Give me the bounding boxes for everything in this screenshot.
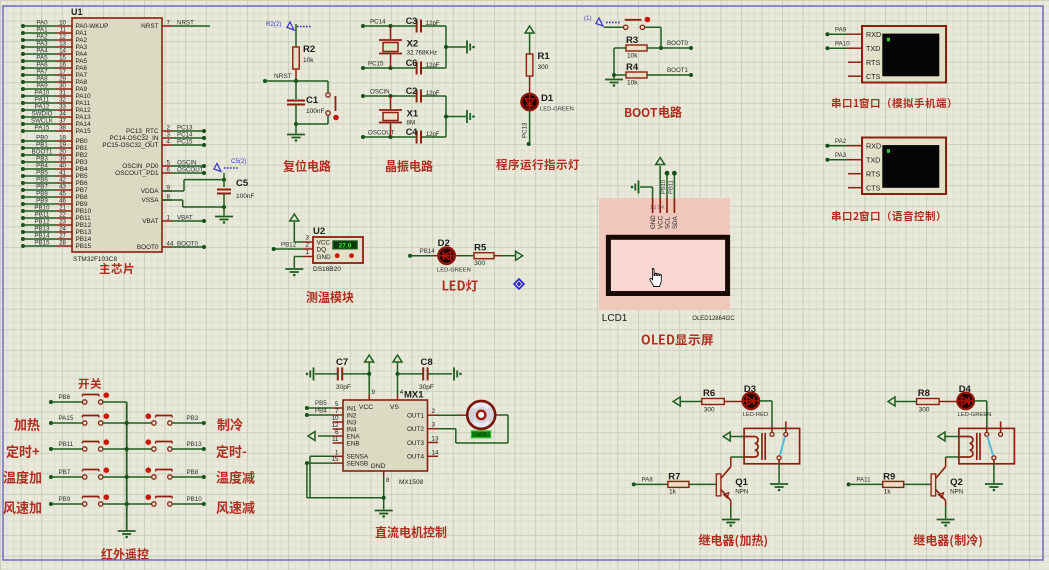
capacitor C3 12pF [406,16,440,33]
svg-text:10k: 10k [627,53,638,60]
svg-text:OUT4: OUT4 [407,454,424,461]
svg-text:PA2: PA2 [36,34,48,41]
U1 left pin PA3 (13) wire PA3 [21,41,88,52]
svg-text:14: 14 [59,48,66,55]
U1 left pin PB14 (27) wire PB14 [21,233,92,244]
wire PB5 to IN1 [305,400,333,410]
U1 left pin PA6 (16) wire PA6 [21,62,88,73]
LED D3 LED-RED [743,384,768,418]
svg-text:PA12: PA12 [35,104,50,111]
svg-text:PA5: PA5 [36,55,48,62]
mouse hand cursor [650,269,661,287]
svg-text:1 2 3 4: 1 2 3 4 [650,205,664,210]
label 风速减 [216,501,254,514]
svg-text:PC15: PC15 [177,139,193,146]
svg-text:BOOT0: BOOT0 [177,241,199,248]
svg-text:300: 300 [538,64,549,71]
svg-text:PA15: PA15 [76,128,92,135]
svg-text:11: 11 [60,27,67,34]
MX1 left pin IN4 (12) [332,422,357,433]
svg-text:12: 12 [59,34,66,41]
U1 left pin PB8 (45) wire PB8 [21,191,88,202]
U1 left pin PB11 (22) wire PB11 [21,212,91,223]
U1 left pin PA8 (29) wire PA8 [21,76,88,87]
wire Q2 emitter to ground [945,506,947,519]
svg-text:OSCOUT: OSCOUT [177,167,204,174]
push button PA15 [82,413,109,425]
ground right of C8 [453,367,455,380]
svg-text:31: 31 [59,90,66,97]
label 测温模块 [306,291,353,303]
main chip U1 STM32F103C8 body [71,7,162,263]
U1 left pin PB5 (41) wire PB5 [21,170,88,181]
svg-text:DQ: DQ [317,247,327,254]
wire probe to R2 top [295,24,297,47]
push button PB11 [82,439,109,451]
svg-text:300: 300 [704,407,715,414]
resistor R5 300 [474,243,494,267]
svg-text:C3: C3 [406,16,418,26]
svg-text:39: 39 [59,156,66,163]
svg-text:PB8: PB8 [36,191,48,198]
svg-text:MX1508: MX1508 [399,479,424,486]
svg-text:46: 46 [59,198,66,205]
OLED pin VCC [658,198,665,229]
svg-text:PB5: PB5 [315,400,327,407]
svg-text:D1: D1 [541,93,554,104]
MX1 left pin ENA (6) [333,429,361,440]
U1 left pin PA5 (15) wire PA5 [21,55,88,66]
svg-text:1: 1 [167,215,171,222]
MX1 left pin IN2 (7) [333,408,357,419]
svg-text:R9: R9 [883,472,895,483]
U1 right pin NRST (7) [141,20,210,31]
svg-text:4: 4 [167,139,171,146]
ground below R4 rail [605,75,623,87]
node VSS junction [222,205,226,209]
wire D3 to relay common [759,401,772,427]
MX1 pin GND (8) [384,471,390,510]
svg-text:10k: 10k [627,80,638,87]
wire R8 to D4 [939,401,957,403]
wire PA8 to R7 [632,476,668,486]
svg-text:PA10: PA10 [76,93,92,100]
transistor Q1 NPN [716,467,748,506]
svg-text:6: 6 [167,167,171,174]
label 制冷 [217,418,242,431]
U1 right pin VDDA (9) [141,185,172,196]
svg-text:1k: 1k [669,489,677,496]
svg-text:PA11: PA11 [35,97,50,104]
relay Q2 coil and contacts [959,422,1015,464]
wire PC14 horizontal [361,19,446,29]
U2 pin GND (1) [294,249,331,268]
wire PC15 horizontal [361,61,446,71]
wire button to BOOT0 node [645,27,661,48]
label 开关 [78,378,101,389]
svg-text:RTS: RTS [866,58,880,67]
terminal serial1 pin RTS [848,58,880,67]
svg-text:ENB: ENB [347,440,360,447]
wire relay coil+ to power arrow [938,432,959,441]
node GND junction [382,496,386,500]
svg-text:PB5: PB5 [36,170,48,177]
DC motor [467,401,495,439]
wire R3 left to R4 rail [614,48,626,75]
power arrow left of R8 [888,397,917,406]
svg-text:PB9: PB9 [36,198,48,205]
wire key PB7 to bus [103,476,127,478]
U1 right pin OSCOUT_PD1 (6) [115,167,206,178]
svg-text:PB1: PB1 [36,142,48,149]
svg-text:32: 32 [59,97,66,104]
node VDD junction [222,178,226,182]
svg-text:PA6: PA6 [36,62,48,69]
svg-text:33: 33 [59,104,66,111]
svg-text:R1: R1 [538,51,551,62]
wire PB7 to key [49,469,83,479]
svg-text:5: 5 [167,160,171,167]
svg-text:PA11: PA11 [76,100,91,107]
svg-text:RXD: RXD [866,30,881,39]
svg-text:OUT2: OUT2 [407,426,424,433]
wire GND pin to ground [640,187,653,198]
svg-text:22: 22 [59,212,66,219]
label 晶振电路 [386,160,433,172]
relay Q1 coil and contacts [744,422,800,464]
voltage probe R2(2) [266,21,311,30]
U1 left pin PA0-WKUP (10) wire PA0 [21,20,108,31]
svg-text:3: 3 [306,235,310,242]
capacitor C5 100nF [217,178,254,200]
motor driver MX1 MX1508 body [343,390,428,487]
svg-text:C1: C1 [306,95,319,106]
cursor cross marker [514,279,524,289]
wire R5 to power [494,255,516,257]
svg-text:PB8: PB8 [187,469,199,476]
wire R3 right to BOOT0 terminal [647,40,693,50]
U1 left pin PB0 (18) wire PB0 [21,135,88,146]
svg-text:(1): (1) [584,15,592,22]
svg-text:NRST: NRST [141,23,158,30]
label 复位电路 [283,160,331,172]
LED D2 LED-GREEN [437,238,471,274]
svg-text:20: 20 [59,149,66,156]
node R3-R4 junction [612,73,616,77]
svg-text:OSCIN: OSCIN [370,89,390,96]
svg-text:1k: 1k [884,489,892,496]
ground below keypad bus [118,530,136,532]
resistor R2 10k [293,44,315,69]
svg-text:7: 7 [167,20,171,27]
node C1-button junction [294,122,298,126]
U1 left pin PB15 (28) wire PB15 [21,240,92,251]
svg-text:PB4: PB4 [36,163,48,170]
OLED module LCD1 pink board [599,198,730,310]
resistor R8 300 [917,388,940,414]
svg-text:PC15-OSC32_OUT: PC15-OSC32_OUT [102,142,158,149]
label 定时+ [6,445,39,458]
svg-text:2: 2 [432,408,436,415]
svg-text:PB13: PB13 [187,441,203,448]
U1 left pin PA4 (14) wire PA4 [21,48,88,59]
svg-text:VS: VS [390,404,400,411]
svg-text:SDA: SDA [672,215,679,229]
wire Q1 emitter to ground [730,506,732,519]
svg-text:300: 300 [919,407,930,414]
wire SCL with net PB10 [661,171,669,198]
svg-text:OUT1: OUT1 [407,413,424,420]
svg-text:C8: C8 [421,357,433,368]
wire C8 left to VS node [398,373,424,375]
wire PA15 to key [49,415,83,425]
svg-text:NRST: NRST [177,20,194,27]
svg-text:PB6: PB6 [36,177,48,184]
svg-text:PB6: PB6 [76,180,89,187]
svg-text:PB7: PB7 [59,469,71,476]
capacitor C8 30pF [419,357,434,391]
svg-text:PB3: PB3 [76,159,89,166]
svg-text:PB2: PB2 [76,152,89,159]
svg-text:12pF: 12pF [426,91,440,97]
LED D1 LED-GREEN [521,93,573,113]
svg-text:OSCOUT_PD1: OSCOUT_PD1 [115,170,159,177]
svg-text:SCL: SCL [664,216,671,229]
ground below Q1 [722,519,740,521]
wire R1 to D1 [529,76,531,94]
U1 left pin PA10 (31) wire PA10 [21,90,91,101]
wire C5 bottom to ground [223,195,225,216]
svg-text:14: 14 [432,449,439,456]
wire key to PB8 [172,469,206,479]
resistor R6 300 [702,388,725,414]
svg-text:PC15: PC15 [368,61,384,68]
wire NRST down to C1 [295,81,297,99]
svg-text:OSCIN: OSCIN [177,160,197,167]
U1 left pin PA1 (11) wire PA1 [21,27,88,38]
svg-text:PB0: PB0 [76,138,89,145]
svg-text:PB6: PB6 [59,394,71,401]
wire relay coil- to transistor collector [946,457,959,467]
terminal serial2 pin TXD [825,152,880,164]
U1 left pin PB7 (43) wire PB7 [21,184,88,195]
svg-text:PA9: PA9 [36,83,48,90]
svg-text:42: 42 [59,177,66,184]
wire relay contact to ground [993,464,995,483]
label 继电器(制冷) [914,534,982,548]
U1 right pin BOOT0 (44) [137,241,206,252]
svg-text:IN4: IN4 [347,426,357,433]
svg-text:OUT3: OUT3 [407,440,424,447]
U1 right pin VSSA (8) [141,194,172,205]
MX1 left pin ENB (11) [332,436,360,447]
ground below C1 [287,124,305,142]
bus junction [125,475,129,479]
svg-text:45: 45 [59,191,66,198]
label 串口1窗口（模拟手机端） [832,98,951,108]
svg-text:R5: R5 [474,243,487,254]
svg-text:C4: C4 [406,127,418,137]
U1 left pin PA2 (12) wire PA2 [21,34,88,45]
svg-text:12pF: 12pF [426,21,440,27]
wire VSSA to C5 bottom [162,200,224,207]
wire NRST horizontal [263,73,328,83]
wire OUT2 loop to motor right [438,415,508,443]
svg-text:PB11: PB11 [76,215,92,222]
wire PB9 to key [49,496,83,506]
U1 left pin PA13 (34) wire SWDIO [21,111,91,122]
resistor R4 10k [626,62,647,87]
power arrow above U2 [290,214,299,242]
svg-text:PB9: PB9 [59,496,71,503]
svg-text:2: 2 [306,242,310,249]
wire OSCOUT horizontal [361,130,446,140]
svg-text:D3: D3 [744,384,756,395]
svg-text:PB0: PB0 [36,135,48,142]
svg-text:PA8: PA8 [36,76,48,83]
U1 left pin PB1 (19) wire PB1 [21,142,88,153]
svg-text:VSSA: VSSA [141,197,159,204]
push button PB9 [82,494,109,506]
label 温度减 [216,471,254,484]
svg-text:R2: R2 [303,44,315,55]
svg-text:PA12: PA12 [76,107,92,114]
label 温度加 [3,471,41,484]
svg-text:19: 19 [59,142,66,149]
svg-text:U1: U1 [71,7,83,17]
wire SENS return to GND node [307,497,384,499]
svg-text:40: 40 [59,163,66,170]
svg-text:38: 38 [59,125,66,132]
ground below relay contact [985,483,1003,485]
push button PB13 [127,439,173,451]
ground right of X2 [466,41,468,54]
svg-text:10k: 10k [303,57,314,64]
svg-text:PB15: PB15 [34,240,50,247]
svg-text:300: 300 [474,260,485,267]
svg-text:PB10: PB10 [34,205,50,212]
svg-text:PB1: PB1 [76,145,89,152]
svg-text:37: 37 [59,118,66,125]
svg-text:17: 17 [59,69,66,76]
label 风速加 [3,501,41,514]
svg-text:GND: GND [370,463,385,470]
svg-text:PC14-OSC32_IN: PC14-OSC32_IN [109,135,158,142]
MX1 right pin OUT3 (13) [407,436,439,447]
svg-text:OSCIN_PD0: OSCIN_PD0 [122,163,159,170]
MX1 left pin IN1 (5) [333,401,357,412]
svg-text:29: 29 [59,76,66,83]
svg-text:PA4: PA4 [36,48,48,55]
svg-text:IN1: IN1 [347,405,357,412]
svg-text:X1: X1 [407,109,419,120]
svg-text:C2: C2 [406,86,418,96]
svg-text:2: 2 [167,125,171,132]
svg-text:PA7: PA7 [76,72,88,79]
label 红外遥控 [101,548,148,560]
MX1 left pin SENSB (15) [332,456,369,467]
svg-text:PA10: PA10 [35,90,50,97]
svg-text:PB5: PB5 [76,173,89,180]
svg-text:BOOT1: BOOT1 [32,149,54,156]
capacitor C6 12pF [406,58,440,75]
MX1 right pin OUT2 (3) [407,422,438,433]
svg-text:8: 8 [386,477,390,484]
svg-text:LED-RED: LED-RED [743,412,768,418]
svg-text:30pF: 30pF [336,384,351,391]
OLED pin SDA [672,198,679,229]
MX1 left pin IN3 (10) [332,415,357,426]
svg-text:GND: GND [650,215,657,229]
svg-text:PA9: PA9 [835,27,847,34]
wire probe to button [604,26,624,28]
svg-text:PB14: PB14 [34,233,50,240]
wire PA11 to R9 [847,476,883,486]
label 加热 [14,418,39,431]
svg-text:PB13: PB13 [76,229,92,236]
svg-text:15: 15 [332,456,339,463]
svg-text:PC13_RTC: PC13_RTC [126,128,159,135]
svg-text:VCC: VCC [359,404,373,411]
svg-text:PA1: PA1 [36,27,48,34]
wire R6 to D3 [724,401,742,403]
svg-text:PA3: PA3 [76,44,88,51]
wire SENSB down [305,461,333,498]
wire right vertical X2 [444,26,466,68]
wire R4 right to BOOT1 terminal [647,67,693,77]
svg-text:X2: X2 [407,39,419,50]
svg-text:PB4: PB4 [315,408,327,415]
transistor Q2 NPN [931,467,963,506]
label 定时- [216,445,246,458]
svg-text:LCD1: LCD1 [602,313,628,324]
push button PB7 [82,467,109,479]
svg-text:PA6: PA6 [76,65,88,72]
svg-text:NRST: NRST [274,73,292,80]
label 直流电机控制 [376,526,447,538]
svg-text:PB10: PB10 [661,180,667,194]
wire SDA with net PB11 [669,171,677,198]
wire key PA15 to bus [103,422,127,424]
resistor R7 1k [668,472,689,496]
svg-text:PB3: PB3 [187,415,199,422]
U1 right pin VBAT (1) [142,215,206,226]
MX1 right pin OUT1 (2) [407,408,438,419]
push button PB10 [127,494,173,506]
wire PB4 to IN2 [305,408,333,418]
wire SENSA down [310,456,333,498]
svg-text:PA1: PA1 [76,30,88,37]
svg-text:15: 15 [59,55,66,62]
svg-text:NPN: NPN [735,489,748,496]
svg-text:R6: R6 [703,388,715,399]
U1 left pin PA9 (30) wire PA9 [21,83,88,94]
wire VDDA to C5 top [162,180,224,191]
svg-text:5: 5 [335,401,339,408]
wire R4 left [614,74,626,76]
svg-text:VBAT: VBAT [142,218,158,225]
svg-text:LED-GREEN: LED-GREEN [540,107,574,113]
U1 label 主芯片 [100,263,134,274]
svg-text:PA0-WKUP: PA0-WKUP [76,23,109,30]
svg-text:PB3: PB3 [36,156,48,163]
svg-text:34: 34 [59,111,66,118]
svg-text:IN2: IN2 [347,412,357,419]
svg-text:R2(2): R2(2) [266,21,281,28]
wire C8 right to ground [428,373,452,375]
svg-text:PA2: PA2 [76,37,88,44]
crystal X1 8M [379,94,419,139]
